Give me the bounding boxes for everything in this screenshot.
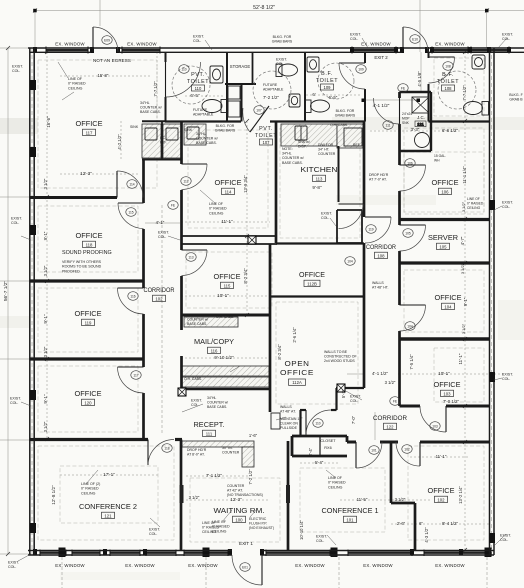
door tag 115 — [126, 208, 136, 217]
svg-text:34"HL: 34"HL — [282, 152, 292, 156]
svg-text:BASE CABS.: BASE CABS. — [187, 322, 207, 326]
wall — [428, 51, 524, 53]
wall: toilet110 left stub — [165, 52, 167, 62]
door tag 114 — [127, 180, 137, 189]
dim line end dots — [362, 99, 366, 103]
wall: kitchen pantry — [338, 146, 340, 202]
raised ceiling dashed line — [276, 302, 358, 404]
wall: toilet107/109 — [304, 52, 306, 122]
svg-text:6': 6' — [312, 92, 315, 97]
column at window wall — [59, 548, 66, 558]
svg-text:0" RAISED: 0" RAISED — [81, 487, 99, 491]
svg-text:BLKG. FOR: BLKG. FOR — [336, 109, 355, 113]
column at window wall — [203, 548, 210, 558]
dim tick — [245, 234, 249, 238]
svg-text:GRAB B: GRAB B — [509, 98, 523, 102]
svg-text:0" RAISED: 0" RAISED — [68, 82, 86, 86]
room label OPEN OFFICE 112A — [280, 359, 314, 385]
door 112 office114 — [182, 164, 208, 190]
svg-text:COL.: COL. — [316, 539, 324, 543]
note text — [81, 482, 100, 495]
wall: exterior right outer — [493, 48, 495, 555]
svg-text:11'-1": 11'-1" — [458, 353, 463, 364]
svg-text:CONSTRUCTED OF: CONSTRUCTED OF — [324, 355, 357, 359]
wall column — [30, 225, 36, 235]
svg-text:4'-3 1/2": 4'-3 1/2" — [424, 527, 429, 543]
mullion — [410, 549, 414, 556]
door tag 106 — [405, 159, 415, 168]
wall: kitchen right / corridor left — [363, 122, 366, 218]
window — [110, 552, 140, 554]
dim tick — [485, 9, 489, 13]
dim tick — [45, 437, 49, 441]
door tag 105 — [403, 229, 413, 238]
window end ticks — [183, 550, 185, 557]
svg-text:8'-2 3/4": 8'-2 3/4" — [277, 344, 282, 360]
svg-text:COL.: COL. — [158, 235, 166, 239]
wall: kitchen top — [270, 120, 365, 122]
svg-text:0" RAISED: 0" RAISED — [328, 481, 346, 485]
dimension line — [486, 557, 488, 588]
svg-text:7'-2 1/2": 7'-2 1/2" — [248, 469, 253, 485]
note text — [160, 136, 167, 144]
kitchen fridge — [344, 128, 362, 146]
svg-text:TOILET: TOILET — [255, 133, 277, 139]
svg-text:3 1/2": 3 1/2" — [460, 263, 465, 274]
svg-text:16'-6": 16'-6" — [46, 116, 51, 128]
wall column — [489, 200, 495, 210]
svg-text:108: 108 — [445, 64, 451, 68]
svg-text:EXIST.: EXIST. — [350, 33, 361, 37]
svg-text:EXIT 1: EXIT 1 — [239, 541, 253, 546]
note text — [202, 521, 220, 534]
leader line — [326, 470, 336, 478]
svg-text:10'-10 1/4": 10'-10 1/4" — [299, 519, 304, 539]
wall: toilet109 right lower — [364, 89, 366, 122]
wall: toilet108 left stub — [428, 52, 430, 58]
mullion — [228, 549, 232, 556]
note EXIST. COL. — [350, 395, 361, 404]
svg-text:108: 108 — [445, 86, 453, 91]
wall: office104/office103 — [400, 337, 491, 341]
svg-text:EXIST.: EXIST. — [502, 33, 513, 37]
dimension line — [0, 47, 31, 49]
svg-text:102: 102 — [155, 297, 163, 302]
svg-text:ELECTRIC: ELECTRIC — [249, 517, 267, 521]
wall: corridor102 right seg2 — [180, 190, 183, 250]
room label OFFICE 115 — [214, 272, 241, 289]
door 110b open office — [306, 410, 331, 435]
svg-text:OFFICE: OFFICE — [428, 486, 455, 495]
svg-text:3 1/2": 3 1/2" — [385, 380, 396, 385]
svg-text:7'-5 1/4": 7'-5 1/4" — [409, 354, 414, 370]
dim tick — [45, 279, 49, 283]
door tag 104 — [345, 257, 355, 266]
dimension line — [0, 280, 30, 282]
svg-text:COUNTER w/: COUNTER w/ — [187, 318, 208, 322]
svg-text:7'-0 1/2": 7'-0 1/2" — [443, 399, 460, 404]
wall — [398, 251, 401, 305]
svg-text:2x4 WOOD STUDS: 2x4 WOOD STUDS — [324, 359, 355, 363]
door E10 top-right entry EXIT 2 — [403, 27, 428, 52]
door 109 bf toilet109 — [339, 63, 365, 89]
svg-text:CEILING: CEILING — [328, 485, 343, 489]
wall: door110 wall l — [300, 409, 306, 411]
wall: corridor102 right seg1 — [180, 121, 183, 164]
raised ceiling dashed line — [188, 130, 268, 228]
svg-text:111: 111 — [385, 123, 390, 127]
svg-text:REF.: REF. — [160, 140, 167, 144]
svg-text:FUTURE: FUTURE — [263, 83, 278, 87]
dimension line — [46, 52, 48, 439]
svg-text:104: 104 — [444, 305, 452, 310]
svg-text:0" RAISED: 0" RAISED — [209, 207, 227, 211]
svg-text:BASE CABS.: BASE CABS. — [282, 161, 303, 165]
dim tick — [463, 440, 467, 444]
svg-text:MAIL/COPY: MAIL/COPY — [194, 337, 234, 346]
svg-text:CORRIDOR: CORRIDOR — [373, 415, 407, 422]
svg-text:110: 110 — [181, 67, 186, 71]
svg-text:COL.: COL. — [10, 401, 18, 405]
dimension line — [246, 121, 248, 315]
door 116 office119 — [118, 288, 144, 314]
svg-text:SNK: SNK — [402, 121, 410, 125]
dimension line — [7, 48, 9, 554]
dimension line — [161, 205, 163, 435]
svg-text:9'-8": 9'-8" — [312, 185, 322, 190]
column — [248, 236, 256, 244]
wall: closet right — [346, 436, 349, 442]
dimension line — [487, 10, 524, 12]
svg-text:112A: 112A — [292, 380, 302, 385]
window — [122, 49, 160, 51]
window end ticks — [45, 47, 47, 54]
note text — [207, 396, 228, 409]
wall column — [30, 147, 36, 157]
window — [184, 552, 228, 554]
leader line — [362, 38, 368, 48]
svg-text:6'-5": 6'-5" — [329, 95, 338, 100]
svg-text:121: 121 — [104, 514, 112, 519]
svg-text:4'-1": 4'-1" — [156, 220, 165, 225]
svg-text:34"HL: 34"HL — [207, 396, 216, 400]
svg-text:7'-2 1/2": 7'-2 1/2" — [263, 95, 280, 100]
wall: sink alcove bottom — [142, 159, 182, 161]
wall: exterior bottom outer — [28, 550, 232, 552]
leader line — [168, 236, 180, 240]
leader line — [182, 404, 203, 412]
mullion — [394, 47, 398, 53]
note EXIST. COL. — [191, 399, 202, 408]
svg-text:OFFICE: OFFICE — [280, 368, 314, 377]
wall: toilet108 bottom — [429, 120, 491, 122]
wall: office114/115 upper — [181, 235, 277, 237]
wall: exterior top outer — [28, 47, 524, 49]
dimension line — [370, 130, 460, 132]
note text — [68, 77, 86, 90]
svg-text:13'-9 3/4": 13'-9 3/4" — [243, 175, 248, 193]
svg-text:34"HL: 34"HL — [187, 313, 196, 317]
wall: server/office104 — [400, 261, 491, 264]
svg-text:3 1/2": 3 1/2" — [461, 201, 466, 212]
note text — [212, 520, 230, 533]
svg-text:CEILING: CEILING — [209, 211, 224, 215]
svg-text:E09: E09 — [104, 38, 110, 42]
wall: corridor102 left seg4 — [142, 393, 145, 440]
dimension line — [300, 462, 340, 464]
leader line — [250, 508, 258, 517]
svg-text:COL.: COL. — [321, 216, 329, 220]
svg-text:13'-2 1/4": 13'-2 1/4" — [458, 486, 463, 504]
dimension line — [419, 0, 421, 52]
svg-text:COL.: COL. — [193, 39, 201, 43]
door tag E09 — [102, 36, 112, 45]
room label RECEPT. 111 — [194, 420, 225, 437]
room label OFFICE 114 — [215, 178, 242, 195]
door tag 104 — [405, 322, 415, 331]
wall: chase right — [361, 210, 363, 243]
svg-text:COL.: COL. — [12, 69, 20, 73]
svg-text:OFFICE: OFFICE — [75, 309, 102, 318]
note text — [434, 154, 446, 162]
svg-text:EXIST.: EXIST. — [11, 217, 22, 221]
dimension line — [34, 11, 36, 49]
svg-text:105: 105 — [439, 245, 447, 250]
leader line — [21, 236, 31, 240]
column — [178, 388, 186, 396]
leader line — [230, 366, 240, 372]
dim tick — [463, 337, 467, 341]
svg-text:EXIST.: EXIST. — [8, 561, 19, 565]
dim tick — [463, 119, 467, 123]
door 102 office102 — [396, 442, 420, 466]
window end ticks — [71, 550, 73, 557]
svg-text:REF.: REF. — [353, 143, 360, 147]
note text — [227, 484, 263, 497]
raised ceiling dashed line — [434, 348, 484, 402]
svg-text:4'-7": 4'-7" — [460, 236, 465, 245]
note EXIST. COL. — [502, 373, 513, 382]
svg-text:103: 103 — [432, 424, 438, 428]
dimension line — [0, 196, 30, 198]
svg-text:11'-1": 11'-1" — [436, 454, 447, 459]
wall: sink alcove top — [142, 120, 166, 122]
mullion — [103, 549, 107, 556]
leader line — [150, 518, 160, 527]
wall — [398, 191, 401, 225]
svg-text:EX. WINDOW: EX. WINDOW — [435, 563, 465, 568]
svg-text:107: 107 — [263, 140, 271, 145]
svg-text:DROP HD'R: DROP HD'R — [369, 173, 389, 177]
svg-text:GRAB BARS: GRAB BARS — [335, 114, 356, 118]
raised ceiling dashed line — [38, 366, 138, 432]
wall — [292, 435, 301, 437]
room label OFFICE 118 — [76, 231, 103, 248]
mullion — [90, 47, 94, 53]
raised ceiling dashed line — [38, 288, 138, 352]
room label B.F. TOILET 108 — [437, 72, 459, 91]
note text — [62, 250, 112, 256]
svg-text:OFFICE: OFFICE — [435, 293, 462, 302]
wall: waiting ne wall — [299, 410, 301, 436]
vanity sink left — [145, 128, 157, 140]
svg-text:3 1/2": 3 1/2" — [461, 323, 466, 334]
dim tick — [6, 552, 10, 556]
svg-text:106: 106 — [441, 190, 449, 195]
wall — [262, 550, 494, 552]
svg-text:EX. WINDOW: EX. WINDOW — [295, 563, 325, 568]
wall — [175, 438, 182, 441]
room label CONFERENCE 1 101 — [322, 506, 379, 523]
leader line — [498, 38, 507, 48]
svg-text:ADAPTABLE: ADAPTABLE — [263, 88, 284, 92]
door 115 office118 — [118, 203, 144, 229]
svg-text:WH: WH — [434, 158, 440, 162]
door tag 110 — [313, 419, 323, 428]
note EXIST. COL. — [193, 35, 204, 44]
svg-text:3 1/2": 3 1/2" — [395, 497, 406, 502]
60in clear circle — [318, 63, 354, 99]
svg-text:108: 108 — [377, 254, 385, 259]
svg-text:EX. WINDOW: EX. WINDOW — [363, 563, 393, 568]
raised ceiling dashed line — [300, 468, 385, 532]
mullion — [143, 549, 147, 556]
svg-text:COL.: COL. — [502, 377, 510, 381]
room label OFFICE 106 — [432, 178, 459, 195]
room label OFFICE 120 — [75, 389, 102, 406]
svg-text:COUNTER w/: COUNTER w/ — [140, 106, 162, 110]
wall: closet divider — [319, 436, 321, 456]
dimension line — [145, 222, 180, 224]
note text — [280, 405, 296, 414]
svg-text:EXIST.: EXIST. — [276, 58, 287, 62]
column at window wall — [331, 548, 338, 558]
note text — [324, 350, 357, 363]
svg-text:EXIST.: EXIST. — [12, 65, 23, 69]
door 117 office120 — [118, 367, 144, 393]
window end ticks — [351, 47, 353, 54]
note EXIST. COL. — [276, 58, 287, 67]
svg-text:OFFICE: OFFICE — [214, 272, 241, 281]
svg-text:COL.: COL. — [502, 205, 510, 209]
note text — [216, 315, 234, 319]
wall: exterior right inner — [489, 48, 491, 555]
svg-text:12'-8 1/2": 12'-8 1/2" — [51, 485, 56, 505]
storage shelves — [228, 86, 240, 99]
wall: kitchen left — [275, 122, 278, 244]
note EXIST. COL. — [11, 217, 22, 226]
svg-text:15'-8": 15'-8" — [98, 73, 109, 78]
mullion — [33, 549, 37, 556]
raised ceiling dashed line — [404, 270, 484, 332]
60in clear circle — [253, 71, 291, 109]
wall: chase bottom — [337, 242, 362, 244]
leader line — [21, 402, 31, 406]
60in clear circle — [438, 71, 476, 109]
svg-text:WALLS: WALLS — [372, 281, 384, 285]
note text — [298, 140, 310, 149]
svg-text:EX. WINDOW: EX. WINDOW — [127, 41, 157, 46]
svg-text:103: 103 — [443, 392, 451, 397]
svg-text:PVT.: PVT. — [191, 72, 205, 78]
mullion — [468, 47, 472, 53]
wall: office103/corridor122 left — [400, 405, 421, 408]
counter cabinet — [184, 317, 238, 327]
note text — [263, 83, 284, 92]
counter cabinet — [182, 441, 254, 447]
svg-text:CEILING: CEILING — [467, 206, 481, 210]
note text — [335, 109, 356, 118]
svg-text:1'-6": 1'-6" — [249, 433, 258, 438]
column at window wall — [485, 548, 492, 558]
room label CORRIDOR 102 — [144, 287, 175, 302]
door tag E01 — [240, 563, 250, 572]
counter cabinet — [181, 366, 269, 376]
counter cabinet — [163, 124, 182, 158]
svg-text:O.H. CABS.: O.H. CABS. — [330, 123, 348, 127]
wall: corridor junction v — [335, 388, 337, 410]
svg-text:112B: 112B — [307, 282, 317, 287]
svg-text:COL.: COL. — [11, 221, 19, 225]
svg-text:WALLS: WALLS — [280, 405, 292, 409]
dimension line — [205, 557, 207, 588]
svg-text:J.C.: J.C. — [417, 115, 425, 120]
svg-text:4'-2 1/2": 4'-2 1/2" — [117, 134, 122, 150]
wall: office103/corridor122 right — [446, 405, 490, 408]
svg-text:12'-3": 12'-3" — [80, 171, 92, 176]
wall: office118/119 — [30, 279, 144, 282]
room label CONFERENCE 2 121 — [79, 502, 137, 519]
svg-text:(NO EXHAUST): (NO EXHAUST) — [249, 526, 274, 530]
room box J.C. 121 — [415, 121, 426, 127]
svg-text:120: 120 — [84, 401, 92, 406]
raised ceiling dashed line — [38, 60, 157, 188]
door tag 119 — [366, 225, 376, 234]
wall: toilet110 left lower — [165, 97, 167, 122]
svg-text:EXIST.: EXIST. — [502, 201, 513, 205]
svg-text:8'-4 1/2": 8'-4 1/2" — [442, 521, 459, 526]
svg-text:PVT.: PVT. — [259, 126, 273, 132]
svg-text:34" HT.: 34" HT. — [318, 148, 330, 152]
svg-text:EXIST.: EXIST. — [321, 212, 332, 216]
door tag 101 — [369, 446, 379, 455]
room label OFFICE 112B — [299, 270, 325, 287]
svg-text:114: 114 — [225, 190, 232, 195]
svg-text:52'-8 1/2": 52'-8 1/2" — [253, 5, 275, 11]
svg-text:2'-6 1/4": 2'-6 1/4" — [292, 327, 297, 343]
dimension line — [0, 358, 30, 360]
note text — [369, 173, 389, 182]
column — [337, 384, 345, 392]
raised ceiling dashed line — [38, 446, 174, 540]
wall: openoffice left — [269, 244, 272, 412]
mullion — [507, 47, 511, 53]
wall: toilet110/storage — [226, 52, 228, 85]
wall: jc top — [400, 91, 432, 93]
lavatory 107 — [289, 94, 300, 107]
note EXIST. COL. — [502, 33, 513, 42]
wall: office112B/openoffice — [270, 295, 364, 297]
door tag 109 — [356, 65, 366, 74]
svg-text:10'-1": 10'-1" — [217, 293, 229, 298]
wall: closet left — [291, 436, 294, 456]
wall: conf1/office102 h — [391, 502, 415, 505]
raised ceiling dashed line — [60, 466, 158, 523]
svg-text:OPEN: OPEN — [285, 359, 310, 368]
wall: exterior left outer — [29, 48, 31, 555]
wall: corridor102 left seg2 — [142, 229, 145, 288]
svg-text:COL.: COL. — [350, 37, 358, 41]
